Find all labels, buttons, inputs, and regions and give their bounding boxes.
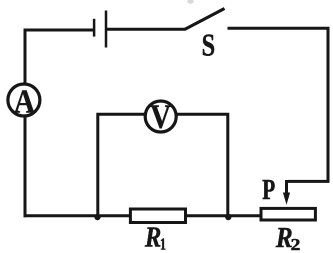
wire battery to switch (106, 28, 185, 31)
svg-text:S: S (202, 28, 216, 63)
voltmeter branch right wire (176, 114, 228, 216)
left vertical wire (top corner to ammeter) (24, 29, 27, 85)
ammeter A circle (8, 84, 40, 116)
potentiometer wiper arrowhead (283, 193, 290, 205)
wire top-left horizontal (corner to battery) (25, 29, 94, 32)
wire switch to top-right corner and down right side to wiper corner (228, 28, 329, 181)
svg-text:1: 1 (160, 235, 166, 253)
bottom wire (bottom-left corner to rheostat R2) (24, 214, 262, 217)
junction dot right (225, 214, 231, 220)
svg-text:A: A (14, 83, 35, 120)
battery long plate (105, 11, 108, 48)
voltmeter V circle (145, 101, 176, 132)
svg-text:V: V (150, 97, 171, 135)
left vertical wire (ammeter to bottom corner) (24, 116, 27, 217)
svg-text:R: R (144, 220, 161, 252)
resistor R1 box (130, 209, 185, 223)
battery short plate (93, 19, 96, 37)
svg-text:P: P (262, 173, 275, 206)
faint scan smudge artifact near top edge (187, 0, 193, 4)
potentiometer wiper arrow shaft (285, 180, 288, 196)
rheostat R2 box (261, 208, 315, 220)
switch S lever (open) (185, 9, 225, 30)
svg-text:2: 2 (291, 235, 301, 253)
junction dot left (94, 214, 100, 220)
voltmeter branch left wire (98, 114, 146, 216)
